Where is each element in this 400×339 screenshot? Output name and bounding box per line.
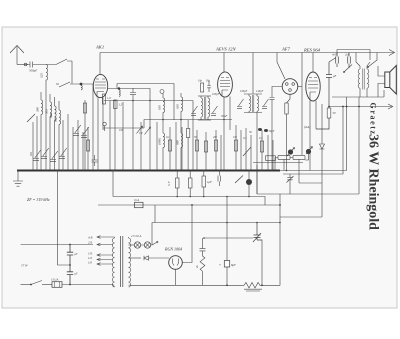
resistor box r5 (204, 141, 207, 152)
wire comb v6 (240, 130, 242, 171)
svg-text:110: 110 (88, 262, 93, 265)
svg-text:500pF: 500pF (29, 69, 37, 73)
coil 588 (41, 92, 43, 171)
tube RES964 (306, 72, 320, 101)
pot arrow (306, 147, 313, 155)
divider underline (244, 289, 262, 291)
junction y222 x257 (256, 222, 258, 224)
wire x262 (261, 240, 263, 286)
tube AF7 (282, 79, 298, 95)
wave switch S1a (56, 59, 72, 65)
coil 030b (181, 93, 183, 133)
wire comb j2 (84, 100, 86, 171)
HT fuse box (135, 202, 144, 207)
AEVS cathode (222, 90, 228, 96)
wire x280 (279, 194, 281, 286)
svg-text:100pF: 100pF (212, 93, 220, 96)
pot wire (305, 154, 309, 160)
electrolytic (160, 90, 164, 94)
line y106 (329, 106, 392, 108)
trimmer IFT2-R (262, 99, 269, 108)
svg-text:AK1: AK1 (95, 45, 104, 50)
secondary tap lamps (129, 244, 135, 246)
wire x152 (151, 223, 153, 246)
lamp 2 cross (145, 243, 149, 247)
svg-text:(080): (080) (158, 138, 162, 145)
line y207 (98, 204, 280, 206)
rectifier anodes (173, 259, 179, 266)
wire comb v5 (235, 125, 237, 171)
wire comb t (181, 127, 183, 171)
electrolytic wires (248, 171, 250, 197)
fuse box (52, 282, 62, 288)
line y222 (152, 222, 280, 224)
svg-text:50: 50 (333, 111, 337, 115)
wire comb v3 (215, 130, 217, 171)
svg-text:220: 220 (88, 242, 93, 245)
wire comb k (109, 101, 111, 171)
wire comb u (192, 101, 194, 171)
cathode electrolytic stem (104, 126, 106, 131)
resistor box 1,0 (102, 94, 105, 104)
wire AK1 anode (99, 53, 101, 75)
wire comb q (156, 122, 158, 171)
detector bead b (264, 129, 268, 132)
wire RES anode (312, 53, 314, 72)
IFT2 core (252, 95, 254, 112)
wire x346 (346, 97, 348, 171)
trimmer IFT1-R (211, 106, 218, 115)
lamp 1 cross (135, 243, 139, 247)
wire comb b (36, 116, 38, 171)
svg-text:0,5: 0,5 (243, 137, 247, 140)
junction caps mid (69, 264, 71, 266)
wire comb v7 (245, 128, 247, 171)
svg-text:100pF: 100pF (240, 90, 248, 93)
wire comb g (77, 120, 79, 171)
junction y207 x280 (279, 204, 281, 206)
tap 220 (97, 243, 113, 246)
wire comb c (45, 82, 47, 171)
IFT1 top bar (198, 95, 211, 97)
trimmer t3 (50, 151, 58, 161)
coil 686 (55, 97, 57, 171)
svg-text:RGN 1064: RGN 1064 (164, 247, 182, 252)
mains transformer primary (112, 237, 114, 287)
rectifier output wire (182, 205, 192, 263)
dial lamp 2 (144, 242, 150, 248)
wire comb o (140, 122, 142, 171)
switch s2 (137, 126, 143, 134)
trimmer IFT2-L (237, 99, 244, 108)
wire y194 (257, 97, 359, 194)
wire AEVS anode (223, 53, 225, 73)
wire comb h (82, 132, 84, 171)
resistor box r4 (195, 140, 198, 151)
svg-text:125: 125 (88, 257, 93, 260)
lamp switch (152, 242, 158, 246)
line y238 (204, 237, 253, 239)
junction x359 (358, 106, 360, 108)
lamp wire (141, 244, 152, 246)
divider wires (275, 158, 299, 184)
fuse stripes (55, 282, 60, 288)
band switch (27, 114, 35, 122)
mains wire bottom (21, 284, 32, 286)
transformer top wires (356, 53, 370, 67)
osc top line (117, 84, 174, 121)
trimmer t1 (31, 150, 41, 160)
svg-text:0,3: 0,3 (259, 137, 263, 140)
wire x113 drop (112, 171, 114, 197)
AEVS pin wire (229, 97, 231, 131)
wire comb p (149, 101, 151, 171)
cathode resistor box (285, 103, 288, 114)
AK1 pin wire (102, 98, 104, 131)
top link line (337, 50, 370, 61)
AK1 anode right wire (108, 89, 150, 101)
wire cap to switch (36, 64, 56, 66)
junction caps top (69, 244, 71, 246)
RES pin wires (310, 101, 316, 171)
wire y174 (283, 107, 343, 175)
svg-text:36 W Rheingold: 36 W Rheingold (366, 134, 381, 230)
speaker switch (368, 53, 377, 68)
cap 1uF box (202, 176, 206, 187)
svg-text:A-B: A-B (87, 237, 93, 240)
below-bus resistor a (175, 178, 179, 188)
volume pot arrow (287, 148, 295, 157)
wire comb v10 (261, 130, 263, 171)
capacitor c-osc (130, 88, 136, 101)
wire comb v8 (250, 135, 252, 171)
wire comb v2 (205, 132, 207, 171)
svg-text:AEVS 12N: AEVS 12N (215, 47, 236, 52)
bead squiggle (81, 85, 82, 89)
svg-text:140pF: 140pF (256, 90, 264, 93)
RES cathode (310, 92, 316, 101)
IFT1 core (204, 97, 206, 119)
bottom line y97 (332, 90, 384, 97)
cap 8uF box (224, 261, 229, 268)
potentiometer blob (306, 149, 311, 154)
AF7 anode wire (298, 86, 302, 88)
wire hline 119 (144, 119, 232, 121)
IFT2 bottom bar (244, 112, 262, 114)
line y162 (253, 162, 303, 164)
mains wire top (21, 244, 94, 246)
resistor box x329 (327, 108, 331, 118)
electrolytic 8uF (246, 179, 252, 185)
tone switch (344, 65, 352, 73)
AEVS grids (220, 78, 230, 87)
AK1 cathode (97, 92, 104, 98)
wire comb f (72, 127, 74, 171)
svg-text:588: 588 (36, 107, 40, 112)
grid capacitor (270, 98, 275, 171)
svg-text:686: 686 (49, 113, 53, 118)
terminal circle (24, 63, 27, 66)
tube AK1 (93, 74, 107, 97)
coil 080b (163, 133, 165, 147)
junction x329 (328, 106, 330, 108)
wire comb i (87, 127, 89, 171)
coil 503 (50, 94, 52, 171)
svg-text:μF: μF (75, 273, 78, 276)
junction y222 x280 (279, 222, 281, 224)
wire comb s (175, 122, 177, 171)
tap 110 (97, 263, 113, 266)
wire AEVS screen (252, 53, 254, 95)
node dots mid (114, 100, 225, 121)
svg-text:1/0,1A: 1/0,1A (51, 279, 59, 282)
wire comb e (67, 114, 69, 171)
anode top bus (100, 52, 395, 54)
wire comb n (132, 101, 134, 171)
screen wire down (301, 95, 303, 155)
resistor box j2 (83, 103, 86, 113)
output transformer secondary (367, 66, 369, 97)
wire comb v12 (272, 140, 274, 171)
wire comb v9 (256, 113, 258, 195)
speaker cone (390, 66, 397, 95)
cathode electrolytic (103, 122, 107, 126)
svg-text:525: 525 (40, 73, 44, 78)
cap link (329, 58, 336, 63)
svg-text:+: + (219, 263, 221, 267)
heater line bottom (131, 284, 244, 286)
junction y207 x192 (191, 204, 193, 206)
IFT1 bottom bar (198, 119, 211, 121)
trimmer t5 (73, 125, 81, 135)
coil 080 (59, 101, 61, 171)
antenna (10, 46, 24, 65)
tap 125 (97, 258, 113, 261)
divider resistor boxes b (293, 156, 305, 160)
trimmer IFT1-L (191, 106, 198, 115)
svg-text:μF: μF (75, 253, 78, 256)
node grid stub (56, 83, 59, 85)
voltage divider zigzag (244, 283, 280, 289)
IFT1 coil a (201, 96, 203, 120)
dial lamp 1 (134, 242, 140, 248)
tone cap (287, 174, 294, 194)
coil 525 (46, 65, 48, 83)
padder cap (92, 155, 98, 166)
speaker (385, 72, 390, 88)
svg-text:4nF: 4nF (332, 54, 337, 57)
detector bead a (258, 128, 262, 131)
svg-text:0,1A: 0,1A (134, 199, 139, 202)
cap pair (218, 171, 221, 187)
wire AF7 grid top (277, 53, 285, 80)
junction y285 x227 (226, 284, 228, 286)
grid cap (207, 81, 211, 92)
wire x322 (321, 104, 323, 217)
rectifier tube RGN1064 (169, 256, 183, 270)
junction caps bottom (69, 284, 71, 286)
svg-text:RES 964: RES 964 (303, 48, 321, 53)
capacitor 500pF (27, 62, 36, 68)
line y196 (113, 197, 265, 206)
switch s4 (243, 147, 251, 156)
resistor box 1,5 (114, 100, 117, 109)
wire x155 (154, 205, 156, 223)
svg-text:100: 100 (119, 129, 124, 132)
svg-text:030: 030 (158, 105, 162, 110)
wire comb a (32, 122, 34, 171)
ground bus (17, 170, 280, 172)
below-bus resistor b (188, 178, 192, 188)
svg-text:8μF: 8μF (231, 263, 236, 267)
output transformer core (363, 69, 364, 90)
wave switch S1b (59, 82, 70, 87)
wire hline 128 (103, 120, 144, 129)
trimmer t6 (81, 127, 89, 137)
svg-text:080: 080 (54, 117, 58, 122)
line y106 arrow (388, 104, 393, 109)
rectifier bottom wire (175, 269, 177, 285)
resistor box r3 (186, 129, 189, 138)
svg-text:0,1: 0,1 (166, 136, 170, 139)
bus junction dots (45, 170, 287, 239)
switch s5 (235, 176, 243, 184)
resistor box r7 (234, 140, 237, 151)
wire comb m (122, 102, 124, 171)
IFT2 coil b (257, 94, 259, 113)
filter cap 1 (67, 245, 73, 266)
coil 088 (181, 133, 183, 171)
AK1 cathode wire down (97, 98, 99, 171)
wire comb r (169, 127, 171, 171)
wire comb v4 (220, 135, 222, 171)
svg-text:088: 088 (176, 140, 180, 145)
trimmer t2 (41, 148, 49, 158)
divider resistor boxes (278, 156, 290, 160)
grid bead choke (80, 83, 83, 86)
svg-text:57 W: 57 W (21, 264, 28, 268)
resistor box r2 (168, 140, 171, 151)
svg-text:1μF: 1μF (207, 180, 212, 184)
svg-text:50pF: 50pF (269, 130, 275, 133)
below-bus resistor b wires (189, 171, 191, 197)
mains switch (31, 281, 42, 285)
grid stopper box (201, 83, 204, 92)
AF7 cathode wire (287, 94, 291, 103)
tap A-B (97, 236, 113, 239)
volume pot blob (288, 149, 293, 154)
wire x57 (58, 171, 71, 266)
svg-text:030: 030 (176, 104, 180, 109)
resistor box r1 (87, 140, 90, 151)
ground (13, 171, 23, 187)
cathode wire down (286, 114, 288, 171)
IFT1 coil b (208, 96, 210, 120)
speaker feed a (378, 66, 385, 76)
wire AF7 screen (301, 53, 303, 96)
resistor box r6 (214, 140, 217, 151)
AF7 grid left wire (272, 87, 282, 98)
svg-text:150: 150 (88, 253, 93, 256)
RES grids (308, 78, 318, 89)
junction x343 (342, 106, 344, 108)
wire comb v1 (196, 130, 198, 171)
wire antenna to coupling cap (17, 64, 28, 66)
svg-text:2nF: 2nF (345, 54, 350, 57)
bias diode (320, 144, 325, 149)
filter cap 2 (67, 265, 73, 285)
svg-text:503: 503 (45, 109, 49, 114)
secondary tap rect (129, 257, 142, 259)
cap 4nF (336, 53, 339, 68)
bus end arrow (389, 50, 395, 56)
AEVS cathode wire (223, 97, 225, 171)
mains switch dot (30, 284, 32, 286)
wire x227 (226, 197, 228, 286)
IFT2 top bar (244, 93, 262, 95)
AK1 grids (95, 79, 106, 88)
transformer core (121, 236, 123, 287)
mains transformer secondary (129, 237, 131, 287)
resistor box r8 (260, 141, 263, 152)
coil 030 (163, 94, 165, 171)
junction y285 x262 (261, 284, 263, 286)
bleeder resistor (200, 238, 206, 286)
secondary tap bottom (129, 284, 132, 286)
output transformer primary (358, 66, 360, 97)
r3 wires (187, 120, 189, 171)
tone cap switch (253, 223, 262, 243)
coupling cap x329 (316, 62, 332, 129)
IFT2 coil a (249, 94, 251, 113)
tube AEVS (218, 72, 233, 97)
below-bus resistor a wires (176, 171, 178, 197)
tap 150 (97, 254, 113, 257)
speaker feed b (378, 84, 385, 98)
wire y217 (280, 216, 322, 218)
tone switch dot (343, 71, 345, 73)
osc junction dot (118, 87, 121, 90)
thin ground ext (280, 170, 347, 172)
svg-text:AF7: AF7 (281, 47, 291, 52)
wire y183 (299, 182, 322, 184)
wire to AK1 grid (70, 83, 94, 85)
wire comb l (114, 101, 116, 171)
wire comb v11 (267, 135, 269, 171)
wire to grid (71, 61, 73, 84)
trimmer t4 (59, 148, 67, 158)
wire hline 100 (104, 100, 193, 102)
wire to fuse (42, 284, 52, 286)
heater diode (144, 256, 169, 260)
svg-text:ZF = 319 kHz: ZF = 319 kHz (27, 197, 50, 202)
svg-text:4 V 0,6 A: 4 V 0,6 A (131, 235, 142, 238)
cap 1uF wires (203, 171, 205, 197)
speaker switch dot (367, 66, 369, 68)
switch s3 (145, 127, 151, 135)
svg-text:(mA): (mA) (304, 125, 310, 129)
svg-text:Graetz: Graetz (369, 103, 378, 136)
resistor box h 5000 (266, 156, 276, 161)
AF7 electrodes (286, 83, 289, 86)
osc bead squiggle (119, 90, 120, 97)
wire comb d (62, 120, 64, 171)
wire fuse to transformer (62, 284, 113, 286)
svg-text:μF: μF (333, 74, 337, 78)
wire comb j (92, 84, 94, 171)
cap 2nF (348, 53, 351, 69)
